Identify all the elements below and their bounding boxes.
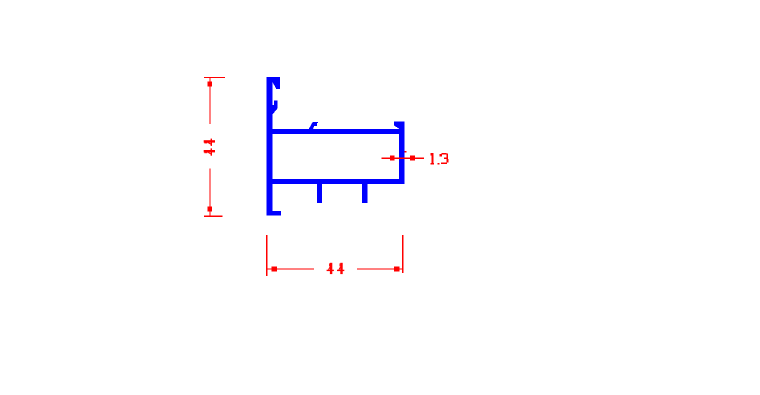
profile bottom horizontal web xyxy=(273,179,405,184)
profile left vertical wall xyxy=(266,77,272,216)
dim 44 horizontal: dimension line right segment xyxy=(357,268,403,269)
dim 1.3: dimension line xyxy=(382,158,425,159)
profile top-left cap xyxy=(266,77,280,82)
profile right vertical wall xyxy=(399,122,404,184)
profile top horizontal web xyxy=(273,129,405,134)
dim 1.3: text digit 3 xyxy=(440,154,442,156)
profile top web snap fin xyxy=(309,122,318,129)
dim 44 vertical: top extension line xyxy=(204,77,225,78)
dim 44 horizontal: right extension line xyxy=(402,235,403,273)
dim 44 horizontal: left box arrowhead xyxy=(272,267,278,272)
dim 44 horizontal: left extension line xyxy=(266,235,267,276)
dim 44 vertical: text label digit 4 (lower, rotated) xyxy=(204,148,215,155)
dim 44 vertical: dimension line lower segment xyxy=(209,169,210,217)
dim 44 horizontal: dimension line left segment xyxy=(267,268,314,269)
profile bottom-left foot hook xyxy=(273,211,282,216)
dim 1.3: text digit 1 xyxy=(430,153,431,155)
dim 1.3: stray tick dot xyxy=(404,151,406,153)
dim 44 horizontal: text label digit 4 (left) xyxy=(327,263,334,274)
dim 44 horizontal: text label digit 4 (right) xyxy=(337,263,344,274)
dim 44 vertical: dimension line upper segment xyxy=(209,77,210,124)
dim 44 vertical: top box arrowhead xyxy=(208,82,213,87)
dim 1.3: left box arrowhead xyxy=(390,156,395,161)
dim 44 vertical: bottom box arrowhead xyxy=(208,207,213,212)
dim 44 vertical: bottom extension line xyxy=(204,216,223,217)
dim 44 vertical: text label digit 4 (upper, rotated) xyxy=(204,139,215,146)
dim 1.3: right box arrowhead xyxy=(410,156,415,161)
profile right wall top hook xyxy=(394,122,399,129)
profile top-left hook tab xyxy=(273,82,281,89)
profile bottom fin 1 xyxy=(317,184,322,203)
dim 1.3: text decimal point xyxy=(438,163,440,165)
dim 44 horizontal: right box arrowhead xyxy=(394,267,400,272)
profile bottom fin 2 xyxy=(362,184,367,203)
profile left wall snap barb xyxy=(273,101,278,115)
